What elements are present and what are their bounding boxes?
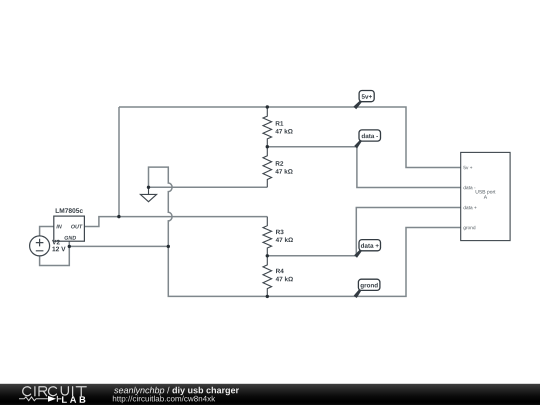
- footer logo diode: [48, 396, 56, 402]
- footer logo CIRCUIT letters: [23, 387, 86, 396]
- resistor R4: [263, 256, 272, 297]
- regulator pin label OUT: [71, 225, 83, 229]
- resistor R2: [263, 147, 272, 188]
- node ground symbol: [147, 186, 150, 189]
- wire top 5v+ net: [119, 107, 461, 168]
- resistor R4 value 47 kOhm: [276, 277, 293, 282]
- resistor R2 label: [276, 161, 284, 165]
- resistor R3: [263, 217, 272, 256]
- resistor R1 label: [276, 121, 284, 125]
- flag data -: [354, 130, 380, 149]
- wire GND tap from regulator: [69, 245, 168, 247]
- voltage source V2: [30, 236, 50, 256]
- USB port A box: [461, 152, 510, 240]
- ground symbol: [140, 187, 156, 201]
- resistor R3 label: [276, 230, 284, 235]
- footer bar: [0, 384, 540, 405]
- flag grond: [354, 279, 380, 298]
- op-amp style box: regulator LM7805c: [54, 216, 85, 241]
- wire ground loop and vertical with hops: [149, 167, 461, 296]
- resistor R1: [263, 107, 272, 147]
- voltage source value 12 V: [52, 247, 65, 252]
- USB port name A: [484, 195, 487, 198]
- voltage source label V2: [52, 240, 60, 245]
- node regulator GND tap: [68, 245, 71, 248]
- node left vertical meets OUT wire: [117, 215, 120, 218]
- resistor R4 label: [276, 269, 284, 273]
- footer url: [113, 396, 215, 404]
- regulator pin label GND: [64, 236, 76, 240]
- USB port pin label grond: [464, 226, 476, 230]
- resistor R1 value 47 kOhm: [275, 129, 292, 134]
- USB port pin label 5v +: [463, 166, 472, 169]
- node R1 R2 data-: [266, 145, 269, 148]
- flag data +: [354, 240, 380, 258]
- regulator label LM7805c: [56, 208, 83, 213]
- resistor R2 value 47 kOhm: [275, 169, 292, 174]
- footer logo LAB text: [62, 396, 85, 402]
- wire V2 plus to regulator IN: [40, 227, 54, 236]
- wire data- net: [267, 147, 460, 188]
- wire data+ net: [267, 208, 460, 256]
- resistor R3 value 47 kOhm: [276, 237, 293, 242]
- wire left vertical 5v+ net: [118, 107, 120, 217]
- node R3 R4 data+: [266, 254, 269, 257]
- USB port pin label data +: [464, 206, 477, 210]
- node vertical GND: [167, 245, 170, 248]
- USB port name USB port: [476, 190, 496, 195]
- wire regulator OUT to R3 top: [84, 217, 267, 227]
- footer title seanlynchbp / diy usb charger: [114, 387, 164, 395]
- regulator pin label IN: [56, 225, 61, 229]
- node R1 top: [266, 105, 269, 108]
- wire ground horizontal to R2 bottom: [149, 186, 268, 188]
- flag 5v+: [353, 91, 374, 110]
- USB port pin label data -: [464, 186, 476, 190]
- node R4 bottom: [266, 295, 269, 298]
- footer logo resistor and diode line: [19, 397, 48, 401]
- wire V2 minus to regulator GND: [40, 241, 70, 265]
